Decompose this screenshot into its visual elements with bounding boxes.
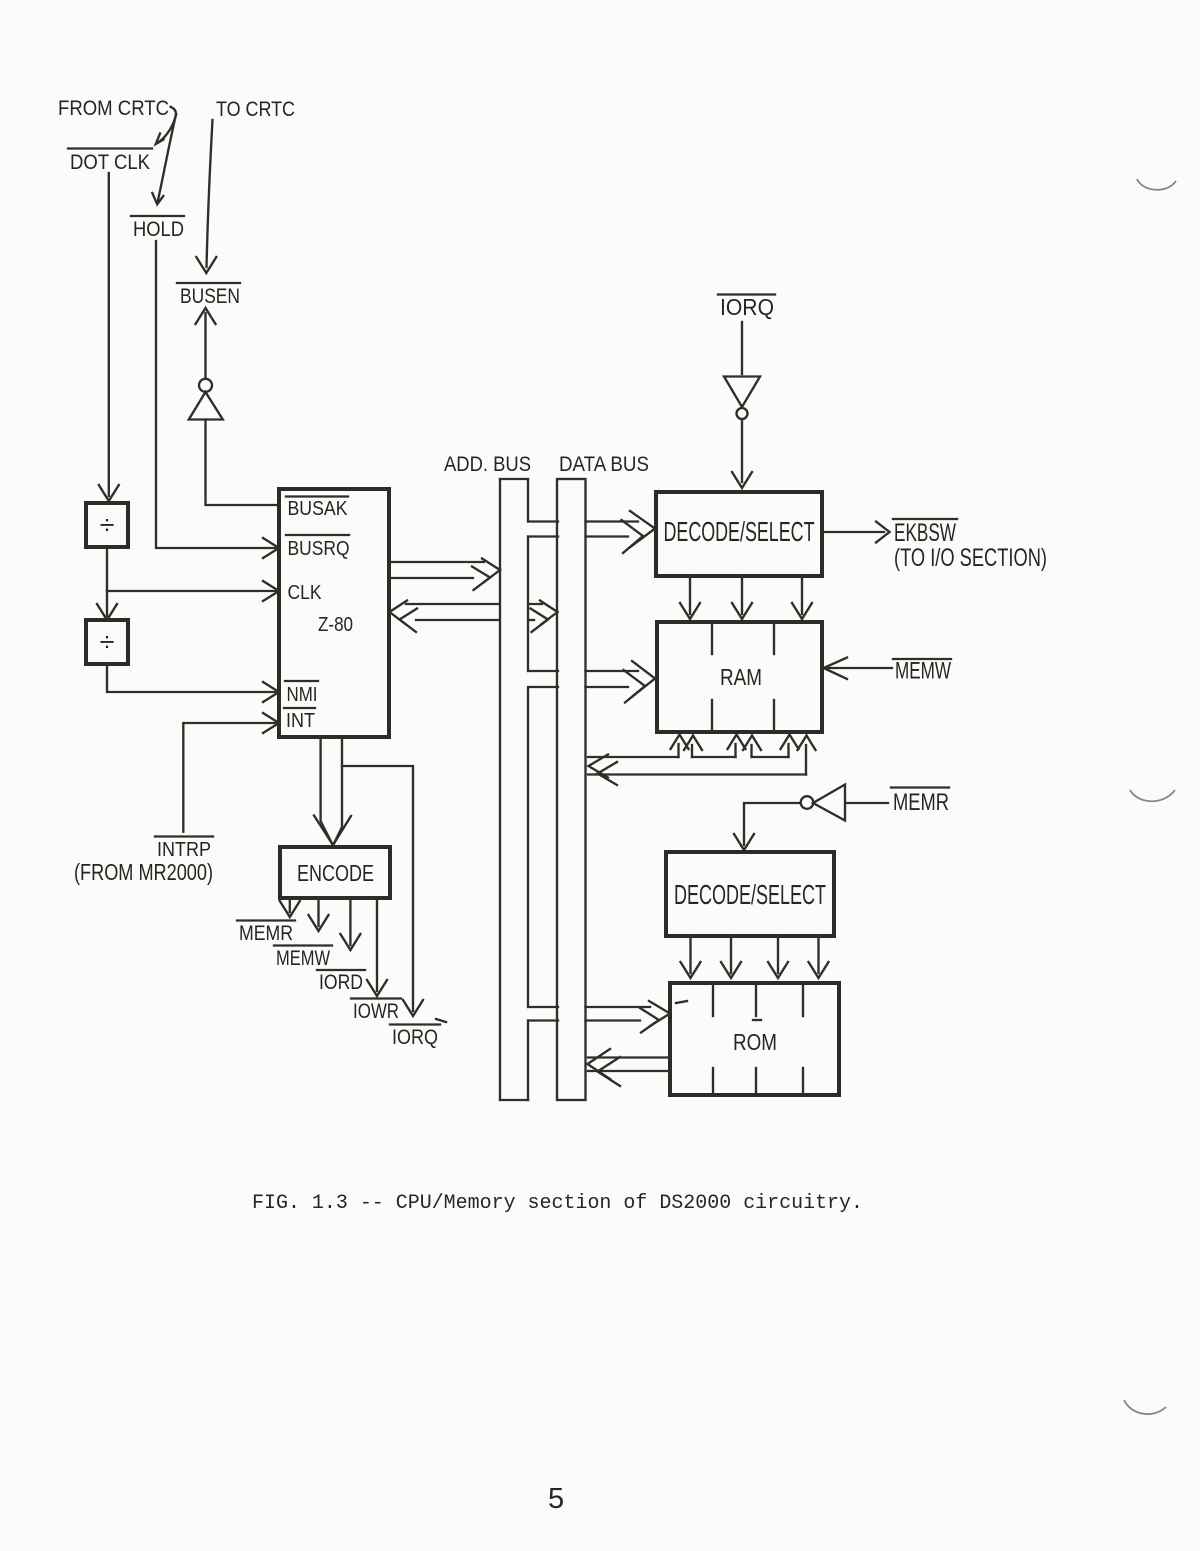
label (TO I/O SECTION) bbox=[894, 544, 1047, 572]
inverter U3 bubble bbox=[801, 796, 814, 809]
wire pipe ADD bus to DECODE/SELECT bbox=[529, 511, 656, 553]
wire inverter to DECODE/SELECT bbox=[732, 420, 752, 489]
svg-text:DECODE/SELECT: DECODE/SELECT bbox=[664, 516, 815, 547]
pin INT (overlined) bbox=[284, 708, 315, 732]
node MEMR encode output (overlined label) bbox=[237, 921, 295, 946]
wire ENCODE output IOWR arrow bbox=[367, 898, 387, 996]
svg-text:HOLD: HOLD bbox=[133, 218, 184, 241]
svg-text:(FROM MR2000): (FROM MR2000) bbox=[74, 859, 213, 885]
wire Z-80 bottom left arrow into ENCODE bbox=[321, 738, 333, 845]
svg-text:DECODE/SELECT: DECODE/SELECT bbox=[674, 879, 826, 910]
node MEMW (overlined label) bbox=[893, 658, 951, 685]
node IORQ encode output (overlined label) bbox=[390, 1025, 440, 1050]
wire DECODE/SELECT to ROM select lines (4 arrows) bbox=[681, 936, 829, 978]
wire IORQ down to inverter bbox=[741, 322, 743, 374]
svg-text:5: 5 bbox=[548, 1483, 564, 1515]
scanner arc artifact 1 bbox=[1137, 179, 1176, 190]
node EKBSW (overlined label) bbox=[893, 519, 957, 547]
svg-text:IORD: IORD bbox=[319, 971, 363, 994]
svg-text:ENCODE: ENCODE bbox=[297, 860, 374, 886]
svg-text:CLK: CLK bbox=[288, 582, 323, 604]
pin NMI (overlined) bbox=[285, 681, 318, 706]
label DATA BUS bbox=[559, 453, 649, 476]
decoder DECODE/SELECT upper box bbox=[656, 492, 822, 576]
bus ADD. BUS vertical channel bbox=[500, 479, 528, 1100]
wire inverter output to lower DECODE/SELECT bbox=[734, 803, 800, 850]
inverter U3 triangle bbox=[813, 785, 845, 821]
node IORQ top (overlined label) bbox=[718, 294, 775, 320]
decoder DECODE/SELECT lower box bbox=[666, 852, 834, 936]
bus DATA BUS vertical channel bbox=[557, 479, 586, 1100]
cpu Z-80 box bbox=[279, 489, 389, 737]
svg-text:BUSRQ: BUSRQ bbox=[288, 538, 350, 560]
svg-text:IOWR: IOWR bbox=[353, 1000, 399, 1023]
svg-text:FIG. 1.3 -- CPU/Memory section: FIG. 1.3 -- CPU/Memory section of DS2000… bbox=[252, 1192, 863, 1215]
page number 5 bbox=[548, 1483, 564, 1515]
wire INTRP up to INT bbox=[183, 713, 279, 832]
wire pipe ADD bus to RAM bbox=[529, 661, 656, 703]
wire buffer output up to BUSEN bbox=[196, 308, 216, 379]
svg-text:EKBSW: EKBSW bbox=[894, 519, 956, 547]
svg-text:MEMR: MEMR bbox=[893, 789, 949, 816]
wire Z-80 bottom right arrow into ENCODE bbox=[314, 738, 351, 845]
wire ENCODE output MEMR arrow bbox=[280, 898, 300, 917]
svg-text:DOT CLK: DOT CLK bbox=[70, 151, 150, 174]
wire BUSAK from Z-80 to buffer input bbox=[206, 420, 280, 506]
wire pipe DATA bus to Z-80 (data, bidirectional) bbox=[390, 601, 558, 633]
memory ROM box bbox=[670, 983, 839, 1095]
wire IORQ branch from Z-80 down right bbox=[342, 766, 423, 1016]
svg-text:FROM CRTC: FROM CRTC bbox=[58, 97, 169, 120]
pin BUSRQ (overlined) bbox=[286, 535, 350, 560]
wire HOLD down to BUSRQ bbox=[156, 241, 279, 558]
wire MEMW into RAM bbox=[824, 658, 893, 680]
node HOLD (overlined label) bbox=[131, 216, 184, 241]
svg-text:IORQ: IORQ bbox=[392, 1026, 438, 1049]
wire EKBSW output arrow bbox=[822, 522, 890, 543]
encoder ENCODE box bbox=[280, 847, 390, 898]
stray mark inside ROM 2 bbox=[753, 1019, 761, 1021]
node INTRP (overlined label) bbox=[155, 837, 213, 862]
stray mark left of ADD bus bbox=[436, 1019, 446, 1022]
node DOT CLK (overlined label) bbox=[68, 149, 152, 175]
pin BUSAK (overlined) bbox=[286, 497, 348, 521]
svg-text:÷: ÷ bbox=[100, 510, 115, 540]
buffer U1 triangle bbox=[189, 392, 223, 420]
wire ENCODE output IORD arrow bbox=[340, 898, 360, 950]
node IORD encode output (overlined label) bbox=[317, 970, 365, 994]
memory RAM box bbox=[657, 622, 822, 732]
label Z-80 bbox=[318, 614, 353, 636]
svg-text:ADD. BUS: ADD. BUS bbox=[444, 453, 531, 476]
wire DOT CLK down to divider 1 bbox=[99, 173, 119, 501]
svg-text:NMI: NMI bbox=[287, 684, 318, 706]
node IOWR encode output (overlined label) bbox=[351, 999, 401, 1024]
pin CLK bbox=[288, 582, 323, 604]
inverter U2 bubble bbox=[737, 408, 748, 419]
svg-text:BUSAK: BUSAK bbox=[288, 498, 349, 520]
wire pipe Z-80 to ADD bus (address out) bbox=[389, 559, 500, 591]
svg-text:TO CRTC: TO CRTC bbox=[216, 98, 295, 121]
wire divider1 to divider2 bbox=[97, 547, 117, 620]
svg-text:MEMW: MEMW bbox=[895, 658, 951, 685]
svg-text:ROM: ROM bbox=[733, 1029, 777, 1055]
scanner arc artifact 2 bbox=[1130, 790, 1175, 801]
svg-text:DATA BUS: DATA BUS bbox=[559, 453, 649, 476]
divider box 1 (÷) bbox=[86, 503, 128, 547]
svg-text:(TO I/O SECTION): (TO I/O SECTION) bbox=[894, 544, 1047, 572]
svg-text:÷: ÷ bbox=[100, 627, 115, 657]
svg-text:BUSEN: BUSEN bbox=[180, 285, 240, 308]
RAM internal chip dividers bbox=[712, 624, 774, 730]
svg-text:MEMR: MEMR bbox=[239, 922, 293, 945]
wire ENCODE output MEMW arrow bbox=[309, 898, 329, 931]
svg-text:INT: INT bbox=[286, 710, 315, 732]
stray mark inside ROM bbox=[676, 1001, 687, 1003]
label (FROM MR2000) bbox=[74, 859, 213, 885]
svg-text:INTRP: INTRP bbox=[157, 839, 211, 861]
label TO CRTC bbox=[216, 98, 295, 121]
wire divider2 to NMI bbox=[107, 664, 279, 702]
node BUSEN (overlined label) bbox=[177, 283, 240, 308]
node MEMR (overlined label) bbox=[891, 788, 949, 817]
svg-text:IORQ: IORQ bbox=[720, 294, 774, 320]
wire pipe RAM bottom to DATA bus bbox=[588, 735, 816, 786]
caption FIG. 1.3 bbox=[252, 1192, 863, 1215]
inverter U2 triangle bbox=[724, 377, 760, 408]
wire pipe ROM to DATA bus bbox=[588, 1049, 671, 1086]
wire MEMR into inverter bbox=[846, 802, 888, 804]
node MEMW encode output (overlined label) bbox=[274, 946, 332, 971]
label ADD. BUS bbox=[444, 453, 531, 476]
svg-text:RAM: RAM bbox=[720, 664, 762, 690]
buffer U1 bubble bbox=[199, 379, 212, 392]
divider box 2 (÷) bbox=[86, 620, 128, 664]
ROM internal chip dividers bbox=[713, 985, 803, 1093]
label FROM CRTC bbox=[58, 97, 169, 120]
wire CLK branch to Z-80 bbox=[107, 581, 279, 601]
wire DECODE/SELECT to RAM select lines (3 arrows) bbox=[680, 576, 812, 619]
wire curved annotation arrow to DOT CLK bbox=[156, 107, 176, 144]
wire TO CRTC arrow down to BUSEN bbox=[196, 120, 216, 273]
wire curved annotation arrow to HOLD bbox=[152, 115, 176, 205]
svg-text:MEMW: MEMW bbox=[276, 947, 330, 970]
scanner arc artifact 3 bbox=[1124, 1400, 1166, 1414]
wire pipe ADD bus to ROM bbox=[529, 1001, 671, 1033]
svg-text:Z-80: Z-80 bbox=[318, 614, 353, 636]
